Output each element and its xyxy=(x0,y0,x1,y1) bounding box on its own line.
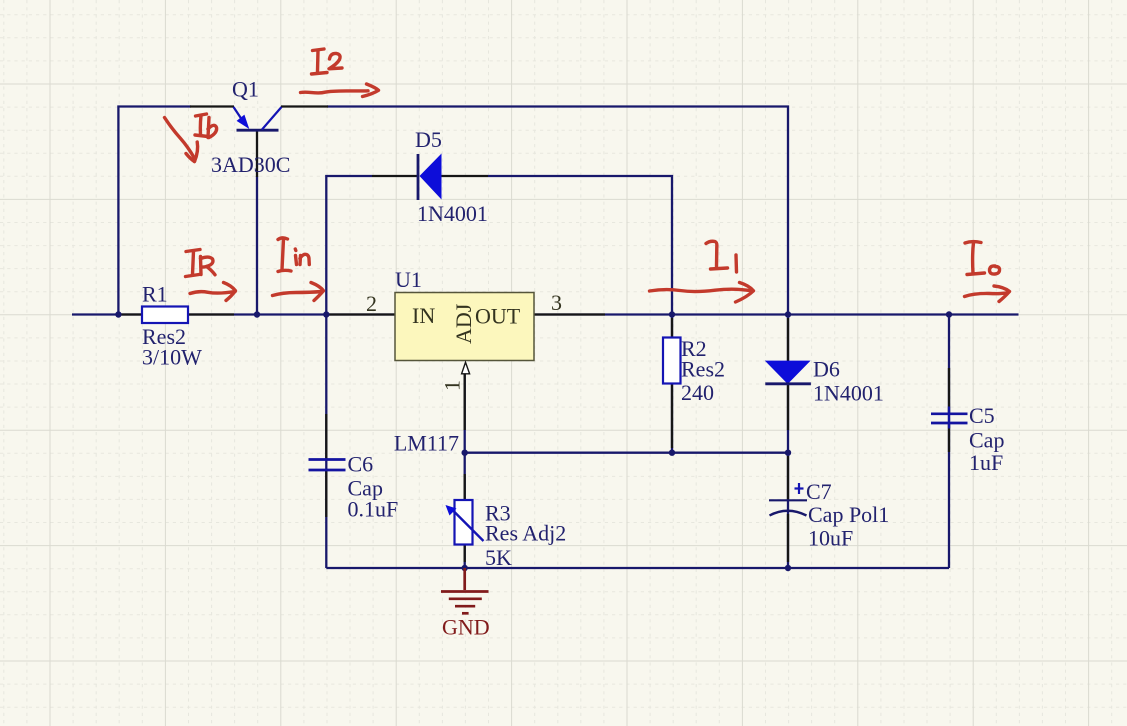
svg-text:Q1: Q1 xyxy=(232,77,259,102)
potentiometer R3 xyxy=(446,500,484,545)
svg-text:R1: R1 xyxy=(142,282,168,307)
wire top rail left segment xyxy=(118,107,191,315)
svg-text:10uF: 10uF xyxy=(808,526,853,551)
pin D6 top black segment xyxy=(787,318,789,361)
junction dots on main bus xyxy=(115,311,952,571)
pin C5 bottom black segment xyxy=(948,423,950,452)
svg-text:240: 240 xyxy=(681,380,714,405)
pin C7 bottom black segment xyxy=(787,514,789,562)
svg-text:IN: IN xyxy=(412,303,435,328)
svg-text:Res Adj2: Res Adj2 xyxy=(485,521,566,546)
svg-text:OUT: OUT xyxy=(475,304,521,329)
wire Q1 base to bus xyxy=(256,176,258,315)
pin R2 top black segment xyxy=(671,318,673,338)
transistor Q1 xyxy=(234,107,282,130)
node Q1 base junction xyxy=(254,311,260,317)
svg-text:3: 3 xyxy=(551,290,562,315)
pin D5 cathode black segment xyxy=(442,175,489,177)
pin C7 top black segment xyxy=(787,456,789,500)
annotation I2 xyxy=(301,49,379,97)
pin D6 bottom black segment xyxy=(787,384,789,431)
wire ADJ node horizontal xyxy=(465,452,788,454)
diode D6 xyxy=(765,361,811,384)
regulator U1 body xyxy=(395,293,534,361)
pin C6 bottom black segment xyxy=(325,470,327,517)
pin C6 top black segment xyxy=(325,414,327,460)
svg-text:D6: D6 xyxy=(813,357,840,382)
pin R1 right lead black segment xyxy=(188,313,234,315)
svg-text:LM117: LM117 xyxy=(394,431,459,456)
wire D5 to R2 branch xyxy=(488,176,672,315)
annotation IR xyxy=(186,250,236,301)
capacitor C7 polarized xyxy=(769,483,807,516)
node C7 bottom junction xyxy=(785,565,791,571)
ground GND symbol xyxy=(441,568,489,613)
pin R2 bottom black segment xyxy=(671,384,673,449)
wire R3 bottom to ground bus xyxy=(464,545,466,569)
node R2 branch junction xyxy=(669,311,675,317)
pin R3 top black segment xyxy=(464,474,466,500)
svg-text:Cap Pol1: Cap Pol1 xyxy=(808,502,889,527)
svg-text:2: 2 xyxy=(366,291,377,316)
pin C5 top black segment xyxy=(948,368,950,414)
svg-text:1N4001: 1N4001 xyxy=(813,381,884,406)
pin Q1 base black segment xyxy=(256,130,258,177)
svg-text:GND: GND xyxy=(442,615,490,640)
svg-text:Res2: Res2 xyxy=(681,357,725,382)
pin Q1 emitter black segment xyxy=(190,105,234,107)
node R2 bottom junction xyxy=(669,450,675,456)
annotation I1 xyxy=(650,241,754,302)
svg-text:1N4001: 1N4001 xyxy=(417,201,488,226)
wire C6 branch vertical xyxy=(325,315,327,569)
wire main bus xyxy=(72,313,1019,315)
node D6 branch junction xyxy=(785,311,791,317)
pin R1 leads black segment xyxy=(119,313,142,315)
node C5 branch junction xyxy=(946,311,952,317)
pin C5 blue stubs xyxy=(948,407,950,429)
node ADJ junction xyxy=(462,450,468,456)
diode D5 xyxy=(418,154,442,201)
annotation Iin xyxy=(273,238,324,301)
svg-text:D5: D5 xyxy=(415,127,442,152)
capacitor C5 xyxy=(931,414,968,423)
capacitor C6 xyxy=(309,460,346,471)
svg-text:C7: C7 xyxy=(806,479,832,504)
svg-text:C5: C5 xyxy=(969,403,995,428)
wire ADJ pin vertical xyxy=(464,375,466,501)
pin U1 pin3 black segment xyxy=(534,313,605,315)
node C6 branch junction xyxy=(323,311,329,317)
wire R2 branch vertical xyxy=(671,315,673,453)
wire D5 net xyxy=(326,176,372,315)
node C7 top junction xyxy=(785,450,791,456)
wire top rail right segment xyxy=(327,107,788,315)
resistor R1 xyxy=(142,307,188,324)
svg-text:ADJ: ADJ xyxy=(451,303,476,344)
svg-text:5K: 5K xyxy=(485,545,512,570)
svg-text:Cap: Cap xyxy=(969,428,1004,453)
svg-text:1uF: 1uF xyxy=(969,450,1003,475)
svg-text:U1: U1 xyxy=(395,267,422,292)
wire D6 C7 branch vertical xyxy=(787,315,789,569)
node R3 ground junction xyxy=(462,565,468,571)
pin U1 ADJ black segment xyxy=(464,375,466,431)
svg-text:0.1uF: 0.1uF xyxy=(348,497,399,522)
svg-text:C6: C6 xyxy=(348,452,374,477)
svg-text:1: 1 xyxy=(440,380,465,391)
wire C5 branch vertical xyxy=(948,315,950,569)
pin D5 anode black segment xyxy=(372,175,418,177)
svg-text:3AD30C: 3AD30C xyxy=(211,152,290,177)
pin U1 ADJ hollow arrow xyxy=(462,362,470,374)
pin U1 pin2 black segment xyxy=(328,313,395,315)
resistor R2 xyxy=(663,338,681,384)
annotation Io xyxy=(965,242,1010,302)
annotation Ib xyxy=(165,114,217,162)
node R1 left junction xyxy=(115,311,121,317)
svg-text:3/10W: 3/10W xyxy=(142,345,202,370)
pin R3 bottom black segment xyxy=(464,545,466,563)
wire bottom bus xyxy=(326,567,949,569)
pin Q1 collector black segment xyxy=(281,105,328,107)
